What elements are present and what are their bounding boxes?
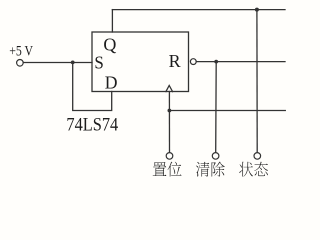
label 置位 (set) [153, 162, 167, 176]
flip-flop U1 74LS74 body [92, 32, 189, 92]
label 清除 (clear) [196, 162, 210, 177]
wire R output to right [196, 61, 285, 63]
wire +5V to S input [23, 62, 92, 64]
inversion bubble R output [190, 59, 196, 65]
clock edge-trigger marker [166, 85, 173, 91]
wire top rail Q to right [112, 9, 285, 11]
wire S node to D input [73, 62, 112, 110]
wire clear vertical [215, 62, 218, 153]
terminal clear [212, 153, 219, 160]
terminal set [166, 153, 173, 160]
svg-text:D: D [105, 73, 118, 93]
svg-text:R: R [169, 51, 181, 71]
wire set vertical [168, 92, 170, 153]
svg-text:Q: Q [103, 34, 116, 54]
power terminal +5V [17, 60, 24, 67]
svg-text:74LS74: 74LS74 [66, 115, 118, 136]
junction node S/D [71, 61, 75, 65]
svg-text:S: S [94, 53, 103, 73]
junction node set/rail [168, 109, 172, 113]
wire Q output [111, 10, 113, 32]
wire status vertical [256, 10, 258, 153]
label 状态 (status) [239, 162, 253, 177]
wire set rail to right [169, 110, 285, 112]
svg-text:+5 V: +5 V [9, 44, 33, 60]
junction node Q/status [255, 8, 259, 12]
terminal status [254, 153, 261, 160]
junction node R/clear [214, 60, 218, 64]
